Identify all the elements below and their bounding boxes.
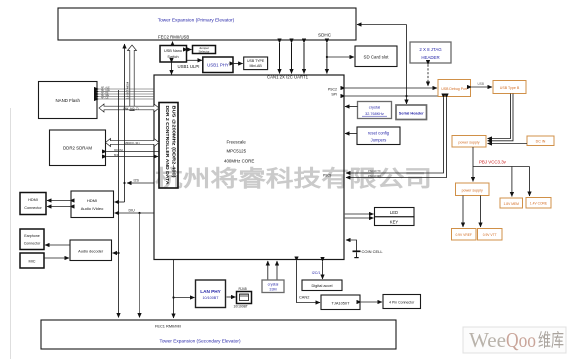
svg-text:10/100BT: 10/100BT <box>203 296 220 300</box>
wire debug TX to CPU <box>346 98 444 173</box>
CPU MPC5125 <box>154 75 344 260</box>
svg-text:Tower Expansion (Secondary Ele: Tower Expansion (Secondary Elevator) <box>159 339 240 344</box>
wire switch up to bar <box>172 42 174 46</box>
svg-text:LED: LED <box>390 210 398 215</box>
svg-text:RJ45: RJ45 <box>239 287 247 291</box>
RJ45 jack <box>234 287 252 309</box>
svg-text:33M: 33M <box>269 288 276 292</box>
svg-text:Earphone: Earphone <box>24 234 40 238</box>
svg-text:NF_CE: NF_CE <box>101 98 109 100</box>
wire USB1 ULPI switch to CPU <box>171 63 173 75</box>
svg-text:DDR 2 CONTROLLER AND DATA: DDR 2 CONTROLLER AND DATA <box>165 106 170 185</box>
audio decoder <box>70 240 112 261</box>
wire HDMI av to connector a <box>47 200 70 202</box>
svg-text:DDR2 SDRAM: DDR2 SDRAM <box>63 146 92 151</box>
svg-text:10/100BT: 10/100BT <box>234 305 248 309</box>
wire NF control lines <box>99 87 155 100</box>
digital accelerometer <box>302 280 342 291</box>
wire reset config to CPU <box>345 133 357 135</box>
svg-text:Connector: Connector <box>24 242 41 246</box>
regulator 0.9V VTT <box>478 229 503 241</box>
wire I2S <box>123 179 154 185</box>
svg-text:Wee: Wee <box>469 328 506 352</box>
wire debug RX to CPU <box>346 98 447 178</box>
wire L2 to HDMI audio video <box>115 201 125 203</box>
wire HDMI av to connector b <box>47 206 70 208</box>
CAN transceiver TJA1050T <box>321 295 360 310</box>
svg-text:USB1 ULPI: USB1 ULPI <box>178 64 200 69</box>
regulator 1.4V CORE <box>526 198 551 209</box>
LAN PHY <box>196 280 226 308</box>
svg-text:1.8V MEM: 1.8V MEM <box>504 202 520 206</box>
DDR2 SDRAM <box>50 130 106 166</box>
svg-text:Switch: Switch <box>167 55 178 59</box>
svg-text:TJA1050T: TJA1050T <box>332 301 351 306</box>
page edge faint line <box>10 108 12 359</box>
svg-text:Tower Expansion (Primary Eleva: Tower Expansion (Primary Elevator) <box>158 18 235 24</box>
svg-text:DIU: DIU <box>129 209 136 213</box>
wire to SD card slot <box>327 56 354 58</box>
svg-text:USB Type B: USB Type B <box>500 86 520 90</box>
svg-text:LAN PHY: LAN PHY <box>200 289 221 294</box>
bus vertical memory hollow arrow <box>126 45 137 111</box>
wire DC IN to power supply <box>488 143 528 145</box>
wire MIC to audio decoder <box>44 257 69 259</box>
DDR2 controller sidebar <box>159 103 178 189</box>
wire SDHC bus to bar <box>326 43 328 74</box>
svg-text:I2C/1: I2C/1 <box>312 271 321 275</box>
svg-text:crystal: crystal <box>268 283 279 287</box>
wire CPU FEC1 to bottom bar <box>172 260 194 319</box>
HDMI audio video <box>71 191 114 218</box>
bus DW_A hollow arrow <box>99 104 159 112</box>
svg-text:HEADER: HEADER <box>421 55 439 60</box>
svg-text:Connector: Connector <box>24 206 42 210</box>
wire USB type B to power supply <box>488 94 514 141</box>
svg-text:USB: USB <box>478 82 485 86</box>
svg-text:power supply: power supply <box>462 189 483 193</box>
MIC <box>20 253 44 268</box>
wire switch to jumper selector <box>188 49 192 51</box>
HDMI connector <box>20 193 46 215</box>
reset config jumpers <box>357 127 400 145</box>
KEY <box>375 217 415 226</box>
svg-text:COIN CELL: COIN CELL <box>362 249 384 254</box>
wire to 0.9V VTT <box>480 196 482 228</box>
USB type mini-AB connector <box>244 57 268 70</box>
svg-text:PSC9: PSC9 <box>323 174 332 178</box>
wire I2C/1 to digital accel <box>322 262 324 280</box>
wire DIU <box>115 209 155 215</box>
USB1 PHY <box>203 57 233 73</box>
wire JTAG to debug lines <box>427 65 429 87</box>
power supply main <box>452 136 486 148</box>
wire CPU to USB debug port lower <box>345 95 438 97</box>
svg-text:DC IN: DC IN <box>536 140 546 144</box>
svg-text:Mini-AB: Mini-AB <box>249 64 262 68</box>
svg-text:MIC: MIC <box>29 260 36 264</box>
svg-text:Jumpers: Jumpers <box>371 138 387 143</box>
svg-text:BUS @200MHz (DDR2-400): BUS @200MHz (DDR2-400) <box>172 106 177 179</box>
tower expansion primary elevator bar <box>58 8 356 40</box>
svg-text:KEY: KEY <box>390 219 399 224</box>
svg-text:Digital accel: Digital accel <box>312 283 333 288</box>
JTAG header <box>410 42 451 63</box>
svg-text:PBJ VCC3.3v: PBJ VCC3.3v <box>479 160 507 165</box>
wire I2C bus to bar <box>291 43 293 74</box>
svg-text:PSC10 RX: PSC10 RX <box>368 174 381 178</box>
svg-text:1.4V CORE: 1.4V CORE <box>530 202 548 206</box>
svg-text:32.768KHz: 32.768KHz <box>365 112 384 116</box>
wire CPU to crystal 33M a <box>267 261 269 280</box>
svg-text:Selector: Selector <box>198 50 209 54</box>
svg-text:Freescale: Freescale <box>227 140 247 145</box>
wire left bus L2 to bar <box>124 44 126 202</box>
wire MDQS <box>107 149 160 157</box>
svg-text:PSC10 TX: PSC10 TX <box>368 169 381 173</box>
svg-text:USB1 PHY: USB1 PHY <box>207 63 229 68</box>
svg-text:USB Nano: USB Nano <box>164 49 182 53</box>
svg-text:维库: 维库 <box>538 331 564 351</box>
wire bar to serial header vertical <box>357 25 408 105</box>
USB debug port <box>438 80 471 97</box>
svg-text:HDMI: HDMI <box>87 198 97 203</box>
svg-text:杭州将睿科技有限公司: 杭州将睿科技有限公司 <box>155 166 432 192</box>
watermark WeeQoo <box>463 327 566 353</box>
wire CAN1 bus to bar <box>279 43 281 74</box>
wire CPU to KEY <box>345 217 374 219</box>
wire USB1 PHY to mini-AB <box>234 63 243 65</box>
wire CPU to LED <box>345 213 374 215</box>
svg-text:0.9V VTT: 0.9V VTT <box>483 233 497 237</box>
svg-text:Audio decoder: Audio decoder <box>78 249 104 254</box>
4 pin connector <box>383 295 421 309</box>
svg-text:SD Card slot: SD Card slot <box>364 55 390 60</box>
svg-text:2 X 8 JTAG: 2 X 8 JTAG <box>419 47 442 52</box>
USB nano switch U1 <box>160 46 187 63</box>
power supply secondary <box>456 183 490 196</box>
svg-text:reset config: reset config <box>368 131 390 136</box>
wire switch to USB1 PHY <box>187 59 202 61</box>
crystal 32.768KHz <box>358 102 392 119</box>
svg-text:400MHz CORE: 400MHz CORE <box>224 159 254 164</box>
coin cell battery <box>346 240 383 258</box>
wire debug port to USB type B <box>472 86 493 88</box>
wire TJA1050T to 4 pin connector <box>361 301 382 303</box>
svg-text:power supply: power supply <box>458 141 479 145</box>
wire left bus L1 to bottom bar <box>113 90 120 318</box>
USB type B connector <box>493 81 526 94</box>
crystal 33M <box>262 280 284 293</box>
svg-text:PSC2: PSC2 <box>328 88 337 92</box>
wire crystal to CPU <box>345 106 358 108</box>
svg-text:USB TYPE: USB TYPE <box>247 59 265 63</box>
wire L4 DIU bus to bottom bar <box>139 213 141 318</box>
DC IN <box>527 136 554 146</box>
wire CAN2 to TJA1050T <box>297 261 321 303</box>
regulator 1.8V MEM <box>500 198 523 208</box>
svg-text:CAN2: CAN2 <box>299 295 309 300</box>
svg-text:FEC2 RMII/USB: FEC2 RMII/USB <box>158 35 189 40</box>
svg-text:USB Debug Port: USB Debug Port <box>441 87 467 91</box>
LED <box>375 208 415 217</box>
svg-text:HDMI: HDMI <box>28 198 38 202</box>
jumper selector <box>193 46 216 54</box>
svg-text:4 Pin Connector: 4 Pin Connector <box>389 301 415 305</box>
svg-text:Qoo: Qoo <box>506 328 536 352</box>
svg-text:SDHC: SDHC <box>318 33 332 38</box>
bus MDQ hollow arrow <box>106 139 160 147</box>
svg-text:0.9V VREF: 0.9V VREF <box>455 233 472 237</box>
tower expansion secondary elevator bar <box>41 320 396 349</box>
svg-text:MPC5125: MPC5125 <box>227 149 247 154</box>
svg-text:I2S: I2S <box>134 179 140 183</box>
svg-text:FEC1 RMII/MII: FEC1 RMII/MII <box>155 324 181 329</box>
wire LAN PHY to RJ45 <box>227 296 236 298</box>
NAND flash <box>39 82 98 119</box>
SD card slot <box>355 46 397 67</box>
serial header <box>396 105 427 120</box>
wire power rail 3.3v <box>473 147 530 197</box>
wire audio decoder to earphone <box>45 244 70 246</box>
svg-text:SPI: SPI <box>331 93 337 97</box>
svg-text:NAND Flash: NAND Flash <box>55 98 80 103</box>
earphone connector <box>20 229 44 250</box>
wire CPU to crystal 33M b <box>276 261 278 280</box>
wire UART bus to bar <box>303 43 305 74</box>
svg-text:Serial Header: Serial Header <box>399 110 424 115</box>
regulator 0.9V VREF <box>452 229 477 241</box>
svg-text:DW_A(0..7): DW_A(0..7) <box>123 107 138 111</box>
svg-text:Audio /Video: Audio /Video <box>81 206 104 211</box>
svg-text:crystal: crystal <box>369 105 381 110</box>
wire to 0.9V VREF <box>462 196 464 228</box>
svg-text:MDQ(0..31): MDQ(0..31) <box>124 141 139 145</box>
wire CPU to USB debug port upper <box>345 87 437 89</box>
